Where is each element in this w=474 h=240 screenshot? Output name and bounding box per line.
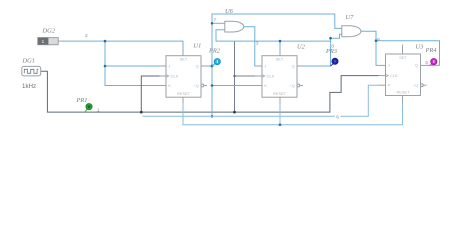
wire net1 DG1 clock bus — [41, 71, 379, 112]
wire net3 U6 output to J2 — [244, 27, 255, 66]
svg-text:1kHz: 1kHz — [22, 83, 36, 90]
node net8 junction — [329, 37, 332, 40]
probe PR1 — [85, 104, 92, 112]
svg-text:U3: U3 — [416, 44, 424, 51]
probe PR4 — [430, 59, 437, 66]
node net7 track junction — [211, 115, 214, 118]
svg-text:U2: U2 — [297, 44, 306, 51]
node net9 junction — [375, 39, 378, 42]
svg-text:CLK: CLK — [171, 73, 179, 78]
svg-text:~Q: ~Q — [289, 83, 294, 88]
svg-text:RESET: RESET — [177, 91, 191, 96]
svg-text:PR4: PR4 — [425, 47, 438, 54]
wire net1 CLK1 riser — [141, 76, 159, 112]
node net1 CLK1 junction — [140, 111, 143, 114]
wire net8 row to U6 loop — [216, 30, 331, 41]
wire net2 riser to J1 K1 — [105, 41, 160, 85]
node net7 Q1 junction — [211, 65, 214, 68]
svg-text:9: 9 — [377, 37, 380, 43]
flip-flop U3 — [379, 45, 427, 103]
node net8 SET2 junction — [279, 40, 282, 43]
svg-text:RESET: RESET — [273, 91, 287, 96]
svg-text:Q: Q — [292, 63, 295, 68]
flip-flop U2 — [255, 50, 303, 104]
svg-text:6: 6 — [336, 114, 339, 120]
svg-text:RESET: RESET — [397, 89, 411, 94]
svg-text:5: 5 — [425, 60, 428, 66]
wire net9 U7 output to J3 — [361, 31, 379, 65]
probe PR3 — [331, 58, 339, 66]
node net1 CLK2 tap — [233, 75, 235, 77]
wire net1 CLK2 riser — [234, 41, 236, 112]
svg-text:1: 1 — [42, 39, 45, 44]
probe PR2 — [212, 59, 220, 66]
svg-text:SET: SET — [276, 57, 284, 62]
svg-text:3: 3 — [256, 41, 259, 47]
svg-text:8: 8 — [331, 43, 334, 49]
svg-text:J: J — [168, 63, 170, 68]
svg-text:K: K — [168, 83, 171, 88]
svg-text:2: 2 — [85, 33, 88, 39]
source DG2 — [38, 38, 64, 45]
and-gate U7 — [342, 26, 361, 37]
svg-text:U1: U1 — [194, 43, 202, 50]
wire net7 Q1 vertical and top run to U7 — [212, 14, 342, 116]
svg-text:K: K — [264, 83, 267, 88]
svg-text:K: K — [388, 83, 391, 88]
wire net9 branch over U3 — [376, 41, 440, 66]
svg-text:J: J — [388, 63, 390, 68]
node net7 K2 junction — [211, 84, 214, 87]
svg-text:Q: Q — [415, 63, 418, 68]
source DG1 — [22, 66, 41, 76]
and-gate U6 — [225, 21, 244, 32]
wire net7 U6 top input tap — [212, 22, 225, 24]
svg-text:~Q: ~Q — [193, 83, 198, 88]
svg-text:SET: SET — [180, 57, 188, 62]
node net7 U6 tap junction — [211, 22, 214, 25]
wire net2 J1 tap — [105, 65, 160, 67]
node net2 riser junction — [104, 40, 107, 43]
svg-text:U7: U7 — [346, 14, 355, 21]
wire net5 Q3 link — [426, 64, 430, 66]
svg-text:Q: Q — [196, 63, 199, 68]
svg-text:PR1: PR1 — [76, 97, 88, 104]
svg-text:J: J — [264, 63, 266, 68]
node net2 J1 junction — [104, 65, 107, 68]
svg-text:CLK: CLK — [267, 73, 275, 78]
svg-text:PR2: PR2 — [208, 47, 221, 54]
flip-flop U1 — [160, 50, 208, 104]
wire reset U2 drop — [279, 104, 281, 125]
node net1 CLK2 junction — [233, 111, 236, 114]
svg-text:SET: SET — [399, 55, 407, 60]
svg-text:DG1: DG1 — [22, 58, 35, 65]
wire net7 Q1 output link — [207, 65, 212, 67]
wire net8 Q2 line — [303, 34, 342, 66]
label net 8 — [331, 43, 335, 48]
svg-text:~Q: ~Q — [413, 83, 418, 88]
label net 6 — [335, 113, 341, 119]
node reset junction — [279, 123, 282, 126]
wire net7 K2 feed — [212, 85, 255, 87]
svg-text:CLK: CLK — [390, 73, 398, 78]
svg-text:U6: U6 — [225, 8, 234, 15]
wire net8 SET2 drop — [279, 41, 281, 49]
wire net6 bottom track to K3 — [143, 85, 379, 116]
svg-text:1: 1 — [97, 108, 100, 114]
svg-text:DG2: DG2 — [42, 28, 56, 35]
wire net2 DG2 to U1 SET — [64, 41, 183, 49]
wire reset track U1 U2 U3 — [183, 103, 403, 125]
wire net1 CLK2 feed — [235, 75, 256, 77]
svg-text:7: 7 — [214, 18, 217, 24]
